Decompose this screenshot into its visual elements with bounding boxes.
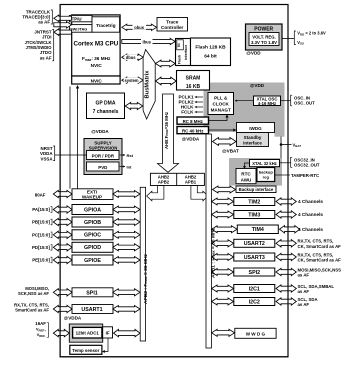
TAMPER-RTC pin label (275, 174, 290, 176)
trace bracket (51, 10, 53, 24)
svg-text:I2C2: I2C2 (249, 299, 260, 305)
svg-text:RC 40 kHz: RC 40 kHz (182, 128, 204, 133)
svg-text:as AF: as AF (298, 289, 310, 294)
svg-text:NVIC: NVIC (91, 79, 103, 84)
svg-text:OSC32_OUT: OSC32_OUT (294, 163, 320, 168)
RC 40 kHz box (177, 127, 209, 134)
VDD clock domain gray region (204, 83, 285, 133)
svg-text:PA[15:0]: PA[15:0] (32, 207, 50, 212)
I2C2 to APB1 arrow (212, 298, 234, 305)
jtag bracket (52, 30, 54, 61)
Flash memory box (191, 38, 231, 66)
EXTI to NVIC interrupt wire (77, 87, 79, 189)
svg-text:POR / PDR: POR / PDR (92, 154, 115, 159)
svg-text:USART1: USART1 (81, 307, 102, 313)
svg-text:IF: IF (106, 330, 110, 335)
Backup interface to APB1 arrow (213, 186, 236, 193)
GP DMA to BusMatrix arrow (125, 102, 143, 109)
svg-text:64 bit: 64 bit (204, 54, 217, 60)
svg-text:TPIU: TPIU (72, 17, 82, 22)
EXTI WAKEUP box (72, 189, 113, 200)
svg-text:as AF: as AF (298, 273, 310, 278)
svg-text:Int: Int (127, 164, 133, 169)
XTAL 32 kHz box (250, 160, 280, 167)
SPI2 box (234, 268, 275, 276)
svg-text:4 Channels: 4 Channels (298, 212, 323, 217)
TIM3 pins arrow (276, 211, 296, 218)
USART1 pins arrow (53, 305, 72, 312)
svg-text:TAMPER-RTC: TAMPER-RTC (291, 173, 319, 178)
PLL and clock management box (208, 93, 234, 115)
svg-text:AHB:Fmax=36 MHz: AHB:Fmax=36 MHz (164, 112, 169, 149)
system arrow (122, 77, 143, 83)
SPI2 pins arrow (276, 268, 296, 275)
svg-text:POWER: POWER (254, 26, 273, 32)
EXTI wakeup wire (69, 87, 71, 189)
I2C2 pins arrow (276, 298, 296, 305)
EXTI left arrow (53, 190, 72, 197)
svg-text:PVD: PVD (98, 165, 107, 170)
svg-text:as AF: as AF (40, 55, 52, 60)
BusMatrix to flash interface arrow (156, 60, 176, 67)
svg-text:Rst: Rst (127, 153, 134, 158)
I2C1 pins arrow (276, 285, 296, 292)
GPIOC to APB2 arrow (113, 231, 140, 238)
svg-text:GP DMA: GP DMA (96, 100, 116, 106)
jtag arrow into SW/JTAG (54, 22, 72, 29)
Trace Controller box (157, 18, 188, 32)
obus arrow (122, 24, 157, 30)
svg-text:12bit ADC1: 12bit ADC1 (76, 331, 100, 336)
svg-text:system: system (124, 78, 138, 83)
USART3 pins arrow (276, 253, 296, 260)
svg-text:64: 64 (177, 43, 181, 47)
TIM4 pins arrow (280, 226, 300, 233)
Rst arrow (120, 154, 125, 156)
BusMatrix to SRAM arrow (156, 77, 177, 85)
svg-text:as AF: as AF (38, 20, 50, 25)
svg-text:NVIC: NVIC (91, 63, 103, 68)
GPIOE box (72, 255, 113, 265)
Int arrow (120, 166, 125, 168)
svg-text:GPIOC: GPIOC (84, 233, 101, 239)
IWDG box (237, 123, 275, 133)
WWDG to APB1 arrow (212, 329, 235, 336)
svg-text:3.3V TO 1.8V: 3.3V TO 1.8V (251, 40, 277, 45)
svg-text:SCK,NSS as AF: SCK,NSS as AF (18, 291, 49, 296)
chip border overlay (60, 5, 288, 357)
NVIC bar (72, 76, 120, 84)
svg-text:VDDA: VDDA (40, 151, 53, 156)
svg-text:VSS: VSS (297, 40, 304, 46)
svg-text:@VDD: @VDD (246, 51, 261, 56)
GPIOB pins arrow (53, 218, 72, 225)
Temp sensor box (70, 345, 102, 354)
WWDG box (235, 328, 276, 338)
USART1 to APB2 arrow (113, 306, 140, 313)
svg-text:TIM4: TIM4 (252, 227, 264, 233)
svg-text:Cortex M3 CPU: Cortex M3 CPU (74, 41, 119, 48)
XTAL OSC box (254, 96, 281, 106)
USART2 pins arrow (276, 240, 296, 247)
svg-text:16AF: 16AF (35, 321, 46, 326)
ADC to APB2 arrow (114, 329, 141, 336)
svg-text:SPI1: SPI1 (86, 291, 98, 297)
temp sensor wire (104, 338, 108, 351)
SW/JTAG box (69, 25, 92, 33)
GPIOA pins arrow (53, 206, 72, 213)
USART3 box (234, 253, 275, 261)
voltage regulator box (249, 33, 279, 46)
svg-text:SUPERVISION: SUPERVISION (89, 146, 118, 151)
svg-text:SPI2: SPI2 (249, 270, 261, 276)
SPI1 pins arrow (53, 289, 72, 296)
GPIOE to APB2 arrow (113, 257, 140, 264)
svg-text:16 KB: 16 KB (186, 84, 201, 90)
EXTI to APB2 arrow (113, 191, 140, 198)
POR/PDR box (87, 151, 120, 160)
svg-text:Standby: Standby (244, 135, 262, 140)
I2C1 to APB1 arrow (212, 285, 234, 292)
svg-text:W W D G: W W D G (246, 332, 266, 337)
trace arrow to TPIU (54, 15, 72, 22)
svg-text:APB2: APB2 (158, 180, 170, 185)
svg-text:NRST: NRST (41, 146, 53, 151)
GPIOC pins arrow (53, 231, 72, 238)
svg-text:Flash: Flash (178, 55, 182, 64)
svg-text:GPIOE: GPIOE (84, 258, 101, 264)
svg-text:Tracetrig: Tracetrig (96, 23, 116, 28)
USART2 to APB1 arrow (212, 240, 234, 247)
GPIOE pins arrow (53, 256, 72, 263)
bridge to APB1 bend arrow (191, 186, 208, 201)
svg-text:@VDDA: @VDDA (64, 316, 82, 321)
Standby interface box (237, 133, 269, 147)
svg-text:APB2 : Fmax = 36 MHz: APB2 : Fmax = 36 MHz (143, 253, 149, 304)
svg-text:PC[15:0]: PC[15:0] (32, 233, 50, 238)
Flash interface box (176, 39, 191, 66)
svg-text:4 Channels: 4 Channels (298, 227, 323, 232)
svg-text:SmartCard as AF: SmartCard as AF (15, 307, 49, 312)
svg-text:obus: obus (134, 25, 145, 30)
GPIOD to APB2 arrow (113, 244, 140, 251)
svg-text:SW/JTAG: SW/JTAG (70, 28, 87, 32)
XTAL32 to RTC wire (245, 163, 250, 167)
OSC32 pin labels (280, 162, 291, 164)
svg-text:PB[15:0]: PB[15:0] (32, 220, 50, 225)
svg-text:VREF-: VREF- (37, 332, 46, 338)
SPI1 box (72, 288, 113, 297)
svg-text:BusMatrix: BusMatrix (145, 70, 151, 99)
GPIOC box (72, 230, 113, 240)
svg-text:USART2: USART2 (244, 241, 265, 247)
svg-text:I2C1: I2C1 (249, 286, 260, 292)
TIM4 box (237, 225, 278, 234)
svg-text:FCLK: FCLK (181, 110, 194, 115)
svg-text:@VDDA: @VDDA (91, 129, 109, 134)
svg-text:OSC_IN: OSC_IN (294, 95, 310, 100)
TIM2 to APB1 arrow (212, 198, 234, 205)
svg-text:APB1 : Fmax = 36 MHz: APB1 : Fmax = 36 MHz (210, 227, 216, 278)
svg-text:XTAL 32 kHz: XTAL 32 kHz (252, 161, 276, 166)
svg-text:@VDD: @VDD (250, 83, 265, 88)
NRST wire to POR (55, 154, 87, 156)
svg-text:Trace: Trace (166, 20, 179, 25)
bridge to APB2 bend arrow (147, 186, 164, 201)
TIM4 to APB1 arrow (212, 226, 237, 233)
svg-text:reg: reg (263, 175, 270, 180)
svg-text:OSC_OUT: OSC_OUT (294, 101, 315, 106)
APB2 bus bar (140, 187, 145, 341)
svg-text:7 channels: 7 channels (93, 109, 119, 115)
svg-text:interface: interface (184, 45, 188, 60)
svg-text:RC 8 MHz: RC 8 MHz (183, 119, 204, 124)
TIM3 box (234, 211, 275, 219)
RC40 to IWDG wire (209, 129, 235, 131)
GPIOB to APB2 arrow (113, 219, 140, 226)
svg-text:GPIOD: GPIOD (84, 245, 101, 251)
svg-text:TIM2: TIM2 (248, 199, 260, 205)
RTC AWU box (236, 169, 256, 184)
TIM2 box (234, 198, 275, 206)
IF box (103, 327, 113, 338)
I2C1 box (234, 285, 275, 293)
svg-text:VBAT: VBAT (293, 142, 302, 148)
svg-text:Backup interface: Backup interface (239, 187, 274, 192)
GPIOD box (72, 242, 113, 252)
svg-text:CLOCK: CLOCK (213, 102, 230, 107)
GPIOA box (72, 205, 113, 215)
SPI1 to APB2 arrow (113, 289, 140, 296)
Trace/trig box (92, 17, 120, 32)
svg-text:VDD = 2 to 3.6V: VDD = 2 to 3.6V (297, 31, 326, 37)
svg-text:IWDG: IWDG (249, 126, 262, 131)
PVD box (87, 162, 120, 171)
Backup interface bar (236, 186, 276, 193)
64-bit sub box (177, 40, 184, 50)
ibus arrow (122, 38, 175, 44)
12bit ADC1 box (73, 327, 102, 338)
svg-text:GPIOA: GPIOA (84, 207, 101, 213)
SRAM box (177, 71, 210, 91)
GPIOA to APB2 arrow (113, 206, 140, 213)
svg-text:RTC: RTC (241, 172, 251, 177)
svg-text:VOLT. REG.: VOLT. REG. (252, 35, 276, 40)
nrst bracket (53, 146, 55, 161)
RC8 to PLL wire (209, 116, 227, 121)
svg-text:as AF: as AF (298, 302, 310, 307)
OSC_IN OSC_OUT labels (281, 100, 291, 102)
gray strip right of IWDG (275, 132, 285, 137)
USART1 box (72, 305, 113, 314)
GP DMA box (87, 93, 125, 119)
svg-text:GPIOB: GPIOB (84, 220, 101, 226)
svg-text:CK, SmartCard as AF: CK, SmartCard as AF (298, 258, 342, 263)
BusMatrix (143, 50, 155, 120)
I2C2 box (234, 298, 275, 306)
svg-text:4-16 MHz: 4-16 MHz (258, 101, 276, 106)
ADC pins arrow (53, 329, 69, 336)
USART3 to APB1 arrow (212, 254, 234, 261)
ADC gray block (69, 324, 102, 342)
jtag arrow JTDO out (54, 29, 72, 36)
APB1 bus bar (206, 134, 211, 348)
svg-text:dbus: dbus (126, 55, 137, 60)
svg-text:CK, SmartCard as AF: CK, SmartCard as AF (298, 244, 342, 249)
svg-text:Flash 128 KB: Flash 128 KB (195, 45, 226, 51)
svg-text:SRAM: SRAM (186, 76, 201, 82)
Standby to APB1 arrow (213, 138, 237, 146)
svg-text:Controller: Controller (161, 25, 184, 30)
RC 8 MHz box (177, 117, 209, 124)
svg-text:PD[15:0]: PD[15:0] (32, 245, 50, 250)
svg-text:80AF: 80AF (35, 193, 46, 198)
svg-text:WAKEUP: WAKEUP (82, 195, 102, 200)
svg-text:APB1: APB1 (185, 180, 197, 185)
backup reg box (257, 168, 275, 182)
VBAT backup domain gray region (229, 158, 282, 186)
AHB2/APB2 AHB2/APB1 bridge box (150, 173, 204, 185)
svg-text:@VDDA: @VDDA (182, 137, 200, 142)
svg-text:interface: interface (243, 140, 262, 145)
XTAL to PLL arrow (235, 100, 253, 102)
svg-text:AWU: AWU (241, 178, 252, 183)
Cortex M3 CPU box (72, 15, 120, 76)
USART2 box (234, 239, 275, 247)
SPI2 to APB1 arrow (212, 269, 234, 276)
chip outer border (60, 5, 288, 357)
VBAT junction and pin (280, 137, 282, 159)
svg-text:TIM3: TIM3 (248, 212, 260, 218)
VDD VSS pins (282, 38, 294, 40)
GPIOD pins arrow (53, 244, 72, 251)
dbus arrow (122, 54, 143, 60)
supply supervision gray box (84, 139, 122, 175)
AHB bus arrow (158, 94, 179, 172)
TIM2 pins arrow (276, 198, 296, 205)
svg-text:4 Channels: 4 Channels (298, 199, 323, 204)
svg-text:USART3: USART3 (244, 255, 265, 261)
TPIU box (69, 15, 92, 21)
svg-text:VSSA: VSSA (41, 156, 54, 161)
svg-text:@VBAT: @VBAT (222, 149, 239, 154)
GPIOB box (72, 217, 113, 227)
svg-text:ibus: ibus (142, 39, 151, 44)
svg-text:MANAGT: MANAGT (211, 108, 231, 113)
POWER block (246, 24, 283, 50)
svg-text:PE[15:0]: PE[15:0] (32, 258, 50, 263)
svg-text:Temp sensor: Temp sensor (72, 348, 99, 353)
TIM3 to APB1 arrow (212, 211, 234, 218)
svg-text:PLL &: PLL & (214, 96, 228, 101)
